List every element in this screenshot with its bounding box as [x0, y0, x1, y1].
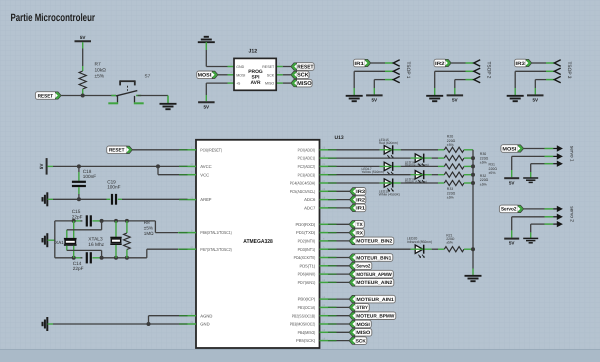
power 5V (TSOP 1)	[366, 95, 383, 102]
svg-text:Red (620nm): Red (620nm)	[379, 141, 398, 145]
LED LED15	[379, 138, 401, 159]
svg-text:PD1(TXD): PD1(TXD)	[296, 230, 316, 235]
junction 5V/C18	[77, 164, 81, 168]
header TSOP 2 pin 3	[474, 76, 480, 82]
header TSOP 3 pin 2	[554, 68, 560, 74]
LED LED19	[379, 179, 401, 197]
svg-text:C14: C14	[73, 261, 82, 266]
svg-text:GND: GND	[236, 65, 244, 69]
header TSOP 3 pin 1	[554, 60, 560, 66]
svg-text:5V: 5V	[452, 98, 459, 103]
resistor R30	[438, 156, 473, 161]
wire LED common rail	[472, 150, 474, 276]
svg-text:AVR: AVR	[251, 80, 261, 86]
wire to VCC	[158, 166, 188, 174]
svg-text:10kΩ: 10kΩ	[95, 67, 107, 73]
wire header pin 3 to 5V	[374, 80, 393, 95]
svg-text:5V: 5V	[509, 180, 516, 185]
wire GND to J12	[206, 66, 227, 68]
svg-text:U13: U13	[335, 135, 344, 141]
svg-text:MOTEUR_BIN1: MOTEUR_BIN1	[356, 255, 391, 261]
net flag MOSI (servo)	[501, 145, 524, 153]
wire IR2 to header pin 1	[451, 62, 473, 64]
wire 5V to R7	[82, 42, 84, 71]
svg-text:±5%: ±5%	[446, 241, 453, 245]
LED LED18	[405, 170, 432, 184]
wire IR3	[328, 190, 350, 192]
svg-text:TSOP 1: TSOP 1	[405, 62, 411, 79]
net flag MISO (J12)	[291, 79, 313, 87]
ground (servo 1)	[523, 178, 538, 182]
wire MOTEUR_BIN2	[328, 240, 349, 242]
svg-text:PD2(INT0): PD2(INT0)	[298, 239, 316, 244]
resistor R7	[79, 62, 106, 90]
ground (TSOP 3)	[507, 96, 524, 101]
header servo 1 pin 2	[553, 153, 563, 159]
svg-text:RESET: RESET	[38, 93, 54, 99]
wire RX	[328, 232, 349, 234]
net flag STBY (PB)	[349, 304, 369, 312]
label TSOP 3	[566, 62, 572, 79]
wire servo pin1	[524, 208, 554, 210]
svg-text:MOTEUR_BPMW: MOTEUR_BPMW	[356, 314, 394, 320]
LED LED20 infrared	[407, 237, 432, 259]
svg-text:PC4(ADC4/SDA): PC4(ADC4/SDA)	[290, 181, 316, 186]
svg-text:S7: S7	[145, 74, 151, 79]
net flag MOSI (J12)	[197, 71, 218, 79]
wire header pin 2 to ground	[435, 71, 474, 95]
wire bottom rail left	[55, 257, 74, 259]
ground (TSOP 2)	[426, 96, 443, 101]
svg-text:C15: C15	[72, 209, 81, 214]
wire servo pin3 to ground	[531, 164, 554, 178]
svg-text:IR2: IR2	[435, 61, 445, 67]
svg-text:1MΩ: 1MΩ	[144, 231, 154, 236]
svg-text:RESET: RESET	[297, 64, 314, 70]
ground (LED rail)	[465, 276, 482, 281]
header TSOP 3 pin 3	[554, 76, 560, 82]
net flag Servo2 (servo)	[499, 205, 523, 213]
net flag MOTEUR_AIN2	[349, 279, 394, 287]
junction AGND branch	[147, 322, 151, 326]
wire XA1 to rails	[67, 221, 102, 258]
wire header pin 3 to 5V	[455, 80, 474, 95]
wire MOTEUR_BIN1	[328, 257, 349, 259]
wire LED20 to R21	[432, 248, 438, 250]
svg-text:PB3(MOSI/OC2): PB3(MOSI/OC2)	[290, 322, 316, 327]
wire PC3 to LED18	[328, 174, 411, 176]
net flag TX	[349, 221, 364, 229]
power 5V (AVCC rail)	[39, 158, 47, 175]
svg-text:J12: J12	[249, 48, 258, 54]
svg-text:MOTEUR_AIN1: MOTEUR_AIN1	[356, 297, 394, 303]
svg-text:PC3(ADC3): PC3(ADC3)	[298, 172, 316, 177]
connector J12 pins	[228, 63, 283, 84]
wire pin leads right	[328, 150, 337, 341]
svg-text:RESET: RESET	[262, 65, 275, 69]
crystal XTAL3	[88, 221, 121, 258]
svg-text:100nF: 100nF	[107, 184, 120, 189]
net flag IR2 (ADC)	[350, 196, 366, 204]
wire pin leads left	[179, 150, 188, 324]
svg-text:MISO: MISO	[356, 330, 370, 336]
svg-text:AREF: AREF	[200, 197, 212, 202]
net flag RESET (J12)	[291, 63, 314, 71]
svg-text:GND: GND	[200, 322, 209, 327]
junction RESET/R7	[81, 94, 85, 98]
wire bottom rail to PB7	[147, 249, 188, 258]
wire +5 to 5V symbol	[206, 83, 227, 101]
label R30	[480, 152, 489, 165]
wire header pin 2 to ground	[515, 71, 554, 95]
svg-text:16 Mhz: 16 Mhz	[88, 242, 104, 248]
wire IR3 to header pin 1	[532, 62, 554, 64]
wire LED15 to R20	[401, 149, 438, 151]
wire IR1 to header pin 1	[371, 62, 393, 64]
label servo 1	[569, 146, 575, 162]
wire MOSI to J12	[218, 74, 228, 76]
svg-text:5V: 5V	[80, 35, 87, 40]
junction C18/ground rail	[77, 197, 81, 201]
net flag MOTEUR_APMW	[349, 270, 393, 278]
junction R21/rail	[471, 247, 475, 251]
label TSOP 1	[405, 62, 411, 79]
junction rail row 2	[471, 156, 475, 160]
svg-text:PD3(INT1): PD3(INT1)	[298, 247, 316, 252]
svg-text:MOSI: MOSI	[356, 322, 370, 328]
svg-text:5V: 5V	[203, 104, 210, 109]
wire header pin 3 to 5V	[535, 80, 554, 95]
header servo 2 pin 2	[553, 214, 563, 220]
svg-text:PB4(MISO): PB4(MISO)	[298, 330, 316, 335]
svg-text:PROG: PROG	[248, 69, 263, 75]
wire MOTEUR_APMW	[328, 273, 349, 275]
net flag MOTEUR_BIN1	[349, 254, 393, 262]
wire LED19 to R33	[401, 182, 438, 184]
wire PC0 to LED15	[328, 149, 380, 151]
wire MOTEUR_AIN2	[328, 281, 349, 283]
svg-text:XA1: XA1	[55, 240, 64, 245]
svg-text:IR3: IR3	[515, 61, 525, 67]
svg-text:5V: 5V	[509, 241, 516, 246]
wire PC1 to LED16	[328, 157, 411, 159]
svg-text:Servo2: Servo2	[356, 264, 370, 270]
capacitor C15	[72, 209, 101, 226]
capacitor C19	[107, 179, 123, 204]
wire ground to GND pin	[53, 323, 188, 325]
ground (AGND/GND)	[43, 317, 54, 331]
junction rail row 3	[471, 164, 475, 168]
wire RESET to PC6	[133, 149, 188, 151]
svg-text:PB2(SS/OC1B): PB2(SS/OC1B)	[292, 313, 316, 318]
svg-text:100nF: 100nF	[83, 174, 96, 179]
svg-text:PD5(T1): PD5(T1)	[299, 263, 315, 268]
svg-text:PB7(XTAL2/TOSC2): PB7(XTAL2/TOSC2)	[200, 247, 232, 252]
ground (crystal)	[43, 233, 55, 247]
wire IR2	[328, 199, 350, 201]
svg-text:White (4500K): White (4500K)	[379, 193, 400, 197]
junction XTAL3/bottom rail	[114, 256, 118, 260]
connector J12 body	[234, 48, 276, 90]
svg-text:PB6(XTAL1/TOSC1): PB6(XTAL1/TOSC1)	[200, 230, 232, 235]
svg-text:±5%: ±5%	[480, 183, 487, 187]
svg-text:±5%: ±5%	[489, 171, 496, 175]
power 5V (servo 1)	[504, 178, 519, 185]
wire top rail left	[55, 220, 74, 222]
header TSOP 2 pin 2	[474, 68, 480, 74]
svg-text:22pF: 22pF	[73, 266, 84, 271]
wire MOTEUR_BPMW	[328, 315, 349, 317]
svg-text:5V: 5V	[532, 98, 539, 103]
svg-text:servo 1: servo 1	[569, 146, 575, 162]
wire crystal ground riser	[54, 221, 56, 258]
svg-text:Partie Microcontroleur: Partie Microcontroleur	[11, 12, 96, 24]
junction rail row 4	[471, 173, 475, 177]
net flag MISO (PB)	[349, 329, 372, 337]
wire J12 SCK	[283, 74, 291, 76]
svg-text:5V: 5V	[371, 98, 378, 103]
svg-text:IR3: IR3	[356, 189, 365, 195]
net flag SCK (J12)	[291, 71, 309, 79]
net flag IR3 (ADC)	[350, 188, 366, 196]
wire PD3 to LED20	[328, 248, 411, 250]
power 5V (J12)	[198, 102, 215, 109]
svg-text:RX: RX	[356, 230, 363, 236]
capacitor C14	[73, 252, 101, 271]
IC U13 ATMEGA328 body	[196, 140, 320, 348]
svg-text:5V: 5V	[39, 163, 44, 170]
wire TX	[328, 223, 349, 225]
svg-text:MOTEUR_APMW: MOTEUR_APMW	[356, 272, 392, 278]
header servo 2 pin 3	[553, 221, 563, 227]
svg-text:±5%: ±5%	[447, 196, 454, 200]
svg-text:MOTEUR_AIN2: MOTEUR_AIN2	[356, 280, 392, 286]
svg-text:RESET: RESET	[109, 148, 125, 154]
wire PC4 to LED19	[328, 182, 380, 184]
svg-text:PD0(RXD): PD0(RXD)	[296, 222, 316, 227]
ground (TSOP 1)	[346, 96, 363, 101]
svg-text:SCK: SCK	[356, 338, 367, 344]
outside canvas strip	[0, 350, 600, 362]
net flag MOTEUR_AIN1 (PB)	[349, 295, 395, 303]
label R20	[447, 135, 456, 148]
power 5V (TSOP 2)	[447, 95, 464, 102]
svg-text:MISO: MISO	[297, 81, 312, 87]
net flag MOSI (PB)	[349, 320, 371, 328]
label R33	[447, 187, 456, 200]
label R32	[480, 174, 489, 187]
svg-text:±5%: ±5%	[447, 143, 454, 147]
svg-text:VCC: VCC	[200, 172, 209, 177]
title Partie Microcontroleur	[11, 12, 96, 24]
svg-text:Infrared (850nm): Infrared (850nm)	[407, 240, 432, 244]
net flag IR3	[515, 59, 532, 67]
svg-text:SCK: SCK	[267, 73, 275, 77]
svg-text:±5%: ±5%	[480, 161, 487, 165]
wire servo pin3 to ground	[531, 224, 554, 238]
svg-text:IR2: IR2	[356, 197, 365, 203]
switch S7	[108, 74, 150, 104]
svg-text:TSOP 2: TSOP 2	[486, 62, 492, 79]
svg-text:MISO: MISO	[265, 82, 274, 86]
wire LED18 to R32	[432, 174, 438, 176]
header servo 1 pin 1	[553, 145, 563, 151]
svg-text:22pF: 22pF	[72, 215, 83, 220]
ground (AREF rail)	[43, 192, 54, 206]
header TSOP 1 pin 3	[393, 76, 399, 82]
svg-text:TX: TX	[357, 222, 364, 228]
wire header pin 2 to ground	[354, 71, 393, 95]
crystal XA1	[55, 221, 76, 258]
wire MISO	[328, 331, 349, 333]
resistor R32	[438, 172, 473, 177]
wire J12 MISO	[283, 82, 291, 84]
wire to AGND pin	[149, 316, 188, 324]
ground (servo 2)	[523, 238, 538, 242]
wire MOTEUR_AIN1	[328, 298, 349, 300]
svg-text:+5: +5	[236, 82, 240, 86]
svg-text:±5%: ±5%	[144, 225, 153, 230]
header TSOP 1 pin 2	[393, 68, 399, 74]
junction XA1 case/bottom rail	[72, 256, 76, 260]
wire J12 RESET	[283, 66, 291, 68]
label U13	[335, 135, 344, 141]
header TSOP 1 pin 1	[393, 60, 399, 66]
svg-text:MOTEUR_BIN2: MOTEUR_BIN2	[356, 239, 392, 245]
net flag IR2	[434, 59, 451, 67]
svg-text:PB5(SCK): PB5(SCK)	[296, 338, 316, 343]
wire 5V to AVCC	[48, 165, 188, 167]
header servo 2 pin 1	[553, 206, 563, 212]
power 5V (R7 pull-up)	[75, 35, 92, 41]
net flag RX	[349, 229, 364, 237]
svg-text:SPI: SPI	[252, 75, 261, 81]
svg-text:MOSI: MOSI	[198, 73, 212, 79]
svg-text:ADC7: ADC7	[304, 206, 316, 211]
power 5V (servo 2)	[504, 239, 519, 246]
net flag IR1	[354, 59, 371, 67]
net flag Servo2	[349, 262, 372, 270]
svg-text:Servo2: Servo2	[501, 207, 517, 213]
svg-text:MOSI: MOSI	[236, 73, 245, 77]
svg-text:PC2(ADC2): PC2(ADC2)	[298, 164, 316, 169]
resistor R31	[438, 164, 473, 169]
junction XA1/top rail	[100, 219, 104, 223]
wire STBY	[328, 306, 349, 308]
junction XA1/bottom rail	[100, 256, 104, 260]
ground (S7)	[160, 96, 177, 110]
wire servo pin1	[524, 148, 554, 150]
junction AVCC/VCC	[156, 164, 160, 168]
svg-text:PB0(ICP): PB0(ICP)	[298, 297, 316, 302]
header TSOP 2 pin 1	[474, 60, 480, 66]
ground (J12)	[198, 37, 215, 67]
wire Servo2	[328, 265, 349, 267]
resistor R21	[438, 233, 473, 251]
resistor R8	[124, 220, 155, 258]
wire LED17 to R31	[401, 165, 438, 167]
wire SCK	[328, 340, 349, 342]
junction rail row 5	[471, 181, 475, 185]
net flag SCK (PB)	[349, 337, 367, 345]
IC U13 left pins	[188, 147, 233, 327]
LED LED16	[405, 154, 432, 168]
LED LED17	[362, 162, 401, 175]
svg-text:ATMEGA328: ATMEGA328	[243, 239, 273, 245]
power 5V (TSOP 3)	[527, 95, 544, 102]
junction R8/top rail	[125, 219, 129, 223]
junction R8/bottom rail	[125, 256, 129, 260]
svg-text:R8: R8	[144, 220, 150, 225]
svg-text:PD7(AIN1): PD7(AIN1)	[298, 280, 316, 285]
resistor R33	[438, 180, 473, 185]
svg-text:XTAL3: XTAL3	[88, 236, 103, 242]
wire PC2 to LED17	[328, 165, 380, 167]
junction XTAL3/top rail	[114, 219, 118, 223]
resistor R20	[438, 147, 473, 152]
net flag RESET (pull-up)	[35, 92, 61, 100]
svg-text:AGND: AGND	[200, 313, 212, 318]
wire IR1	[328, 207, 350, 209]
wire RESET node	[61, 95, 116, 97]
svg-text:R7: R7	[95, 62, 101, 68]
svg-text:TSOP 3: TSOP 3	[566, 62, 572, 79]
net flag MOTEUR_BIN2	[349, 237, 394, 245]
svg-text:±5%: ±5%	[95, 73, 105, 79]
IC U13 right pins	[290, 147, 328, 344]
svg-text:IR1: IR1	[356, 206, 365, 212]
wire servo pin2 to 5V	[512, 156, 554, 177]
wire ground rail	[53, 198, 107, 200]
wire top rail to PB6	[155, 221, 187, 233]
wire bottom rail right	[101, 257, 147, 259]
wire S7 to ground	[138, 95, 169, 97]
capacitor C18	[72, 166, 96, 199]
label servo 2	[569, 206, 575, 222]
net flag MOTEUR_BPMW (PB)	[349, 312, 396, 320]
junction XA1 case/top rail	[72, 219, 76, 223]
svg-text:PB1(OC1A): PB1(OC1A)	[298, 305, 316, 310]
wire servo pin2 to 5V	[512, 217, 554, 238]
svg-text:IR1: IR1	[354, 61, 364, 67]
wire R7 to RESET node	[82, 89, 84, 96]
svg-text:PD6(AIN0): PD6(AIN0)	[298, 272, 316, 277]
wire MOSI	[328, 323, 349, 325]
svg-text:PC0(ADC0): PC0(ADC0)	[298, 147, 316, 152]
svg-text:PC5(ADC5/SCL): PC5(ADC5/SCL)	[290, 189, 316, 194]
svg-text:PC6(/RESET): PC6(/RESET)	[200, 147, 222, 152]
wire LED16 to R30	[432, 157, 438, 159]
header servo 1 pin 3	[553, 161, 563, 167]
svg-text:ADC6: ADC6	[304, 197, 316, 202]
label TSOP 2	[486, 62, 492, 79]
svg-text:Yellow (592nm): Yellow (592nm)	[362, 170, 385, 174]
svg-text:AVCC: AVCC	[200, 164, 211, 169]
svg-text:PD4(XCK/T0): PD4(XCK/T0)	[294, 255, 316, 260]
svg-text:STBY: STBY	[356, 305, 368, 311]
wire top rail right	[101, 220, 156, 222]
svg-text:MOSI: MOSI	[502, 146, 517, 152]
net flag IR1 (ADC)	[350, 204, 366, 212]
wire C19 to AREF	[122, 198, 188, 200]
svg-text:servo 2: servo 2	[569, 206, 575, 222]
net flag RESET (to PC6)	[107, 146, 133, 154]
svg-text:SCK: SCK	[297, 73, 309, 79]
label R31	[489, 163, 498, 176]
svg-text:PC1(ADC1): PC1(ADC1)	[298, 156, 316, 161]
